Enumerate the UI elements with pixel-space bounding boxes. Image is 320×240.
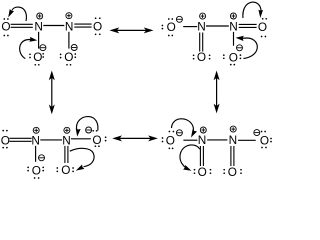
lone pair left of O1b bbox=[162, 25, 164, 27]
single bond O1b-N1b bbox=[183, 26, 197, 28]
lone pair left of O3c bbox=[27, 167, 29, 169]
double bond O1=N1 bbox=[11, 23, 33, 25]
plus charge on N1 bbox=[37, 13, 43, 19]
minus charge on O3c bbox=[39, 155, 45, 161]
single bond N1c-O3c vertical bbox=[35, 146, 37, 162]
lone pair below O4b bbox=[230, 64, 232, 66]
lone pair below O4 bbox=[66, 64, 68, 66]
svg-text:O: O bbox=[1, 20, 10, 34]
double bond N2=O2 bbox=[74, 23, 91, 25]
minus charge on O1d bbox=[176, 130, 182, 136]
single bond N1d-N2d bbox=[207, 139, 227, 141]
svg-text:O: O bbox=[167, 20, 176, 34]
lone pair above O2b bbox=[262, 18, 264, 20]
single bond O1d-N1d bbox=[183, 139, 197, 141]
curved arrow from O1d lone pair to O1d-N1d bond bbox=[172, 119, 194, 131]
curved arrow from O4b lone pair to N2b-O4b bond bbox=[242, 38, 257, 59]
single bond N2c-O2c bbox=[71, 138, 91, 140]
curved arrow from N2c=O4c pi bond onto O4c bbox=[70, 148, 94, 166]
lone pair below O1d bbox=[169, 148, 171, 150]
svg-text:N: N bbox=[34, 20, 43, 34]
svg-text:O: O bbox=[229, 50, 238, 64]
curved arrow from O2c lone pair to N2c-O2c bond bbox=[76, 117, 97, 131]
lone pair below O2d bbox=[261, 147, 263, 149]
lone pair right of O2d bbox=[270, 138, 272, 140]
minus charge on O2c bbox=[86, 127, 92, 133]
lone pair above O1 bbox=[3, 18, 5, 20]
svg-text:N: N bbox=[31, 133, 40, 147]
svg-text:O: O bbox=[258, 20, 267, 34]
plus charge on N1b bbox=[200, 13, 206, 19]
lone pair left of O4d bbox=[223, 169, 225, 171]
svg-text:N: N bbox=[229, 20, 238, 34]
double bond N1d=O3d vertical bbox=[199, 146, 201, 166]
curved arrow from N2b=O2b pi bond onto O2b bbox=[243, 2, 261, 18]
lone pair left of O4 bbox=[60, 54, 62, 56]
curved arrow from O1=N1 pi bond onto O1 bbox=[12, 7, 27, 21]
lone pair right of O4c bbox=[72, 167, 74, 169]
lone pair right of O4 bbox=[74, 53, 76, 55]
svg-text:O: O bbox=[64, 50, 73, 64]
double bond N1b=O3b vertical bbox=[199, 33, 201, 52]
minus charge on O4b bbox=[237, 45, 243, 51]
single bond N2d-O2d bbox=[238, 139, 256, 141]
plus charge on N2 bbox=[66, 13, 72, 19]
lone pair below O1b bbox=[168, 35, 170, 37]
plus charge on N2d bbox=[230, 126, 236, 132]
lone pair right of O3c bbox=[42, 167, 44, 169]
lone pair below O3 bbox=[34, 64, 36, 66]
svg-text:N: N bbox=[65, 20, 74, 34]
plus charge on N1d bbox=[200, 127, 206, 133]
lone pair left of O3 bbox=[29, 53, 31, 55]
svg-text:N: N bbox=[62, 133, 71, 147]
single bond N1-N2 bbox=[43, 25, 64, 27]
svg-text:O: O bbox=[228, 165, 237, 179]
double bond N2b=O2b bbox=[239, 23, 257, 25]
lone pair above O1d bbox=[169, 131, 171, 133]
svg-text:N: N bbox=[198, 133, 207, 147]
lone pair below O1c bbox=[2, 147, 4, 149]
resonance double-headed arrow between right structures bbox=[216, 73, 218, 111]
single bond N2b-O4b vertical bbox=[233, 32, 235, 46]
curved arrow from O3 lone pair to N1-O3 bond bbox=[20, 39, 32, 58]
lone pair left of O3d bbox=[194, 169, 196, 171]
lone pair below O2c bbox=[95, 145, 97, 147]
double bond O1c=N1c bbox=[9, 137, 31, 139]
svg-text:O: O bbox=[32, 163, 41, 177]
svg-text:O: O bbox=[198, 165, 207, 179]
svg-text:O: O bbox=[61, 163, 70, 177]
svg-text:O: O bbox=[33, 50, 42, 64]
lone pair above O2d bbox=[261, 131, 263, 133]
svg-text:O: O bbox=[197, 50, 206, 64]
minus charge on O4 bbox=[71, 45, 77, 51]
single bond N1b-N2b bbox=[206, 25, 229, 27]
lone pair below O3c bbox=[34, 177, 36, 179]
svg-text:O: O bbox=[1, 133, 10, 147]
single bond N1-O3 vertical bbox=[38, 32, 40, 49]
minus charge on O3 bbox=[40, 45, 46, 51]
lone pair below O2 bbox=[95, 33, 97, 35]
lone pair below O1 bbox=[3, 35, 5, 37]
lone pair left of O1d bbox=[162, 137, 164, 139]
lone pair right of O3 bbox=[42, 53, 44, 55]
svg-text:N: N bbox=[229, 133, 238, 147]
lone pair right of O2c bbox=[105, 136, 107, 138]
plus charge on N2b bbox=[230, 13, 236, 19]
lone pair right of O4d bbox=[240, 169, 242, 171]
double bond N2c=O4c vertical bbox=[64, 146, 66, 163]
svg-text:O: O bbox=[260, 133, 269, 147]
lone pair above O1b bbox=[168, 18, 170, 20]
single bond N1c-N2c bbox=[40, 139, 62, 141]
minus charge on O2d bbox=[254, 130, 260, 136]
lone pair right of O3b bbox=[209, 54, 211, 56]
svg-text:O: O bbox=[166, 133, 175, 147]
plus charge on N1c bbox=[33, 127, 39, 133]
svg-text:O: O bbox=[92, 133, 101, 147]
svg-text:N: N bbox=[197, 20, 206, 34]
minus charge on O1b bbox=[176, 16, 182, 22]
lone pair left of O4c bbox=[56, 167, 58, 169]
lone pair above O1c bbox=[2, 130, 4, 132]
lone pair above O2 bbox=[95, 17, 97, 19]
lone pair above O2c bbox=[92, 130, 94, 132]
lone pair below O2b bbox=[261, 36, 263, 38]
lone pair right of O4b bbox=[240, 54, 242, 56]
resonance double-headed arrow between left structures bbox=[51, 73, 53, 112]
svg-text:O: O bbox=[93, 20, 102, 34]
single bond N2-O4 vertical bbox=[68, 32, 70, 49]
resonance double-headed arrow between bottom structures bbox=[115, 137, 156, 139]
double bond N2d=O4d vertical bbox=[230, 146, 232, 166]
curved arrow from N1d=O3d pi bond onto O3d bbox=[180, 145, 200, 168]
lone pair right of O3d bbox=[210, 169, 212, 171]
lone pair left of O3b bbox=[193, 54, 195, 56]
lone pair left of O4b bbox=[223, 54, 225, 56]
resonance double-headed arrow between top structures bbox=[112, 29, 151, 31]
plus charge on N2c bbox=[64, 127, 70, 133]
